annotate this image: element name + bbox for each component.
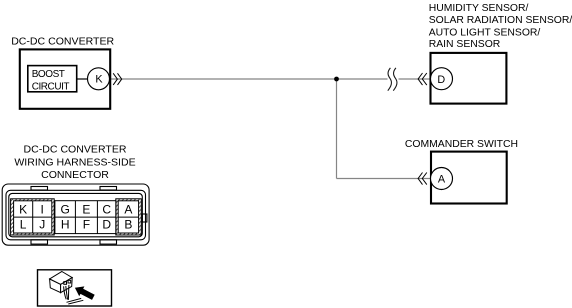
- svg-text:I: I: [41, 203, 44, 217]
- svg-text:COMMANDER SWITCH: COMMANDER SWITCH: [405, 139, 518, 150]
- svg-text:H: H: [61, 218, 70, 232]
- svg-text:WIRING HARNESS-SIDE: WIRING HARNESS-SIDE: [14, 156, 135, 168]
- svg-text:D: D: [437, 74, 445, 86]
- svg-text:J: J: [39, 218, 45, 232]
- svg-text:AUTO LIGHT SENSOR/: AUTO LIGHT SENSOR/: [429, 28, 541, 39]
- svg-text:G: G: [61, 203, 70, 217]
- svg-text:K: K: [19, 203, 27, 217]
- svg-text:CONNECTOR: CONNECTOR: [41, 169, 109, 181]
- svg-text:DC-DC CONVERTER: DC-DC CONVERTER: [24, 144, 127, 156]
- svg-text:DC-DC CONVERTER: DC-DC CONVERTER: [11, 36, 114, 48]
- svg-text:C: C: [102, 203, 111, 217]
- svg-text:BOOST: BOOST: [32, 69, 65, 80]
- svg-text:CIRCUIT: CIRCUIT: [32, 82, 70, 93]
- svg-text:L: L: [20, 218, 27, 232]
- svg-text:HUMIDITY SENSOR/: HUMIDITY SENSOR/: [429, 3, 529, 14]
- svg-text:SOLAR RADIATION SENSOR/: SOLAR RADIATION SENSOR/: [429, 15, 572, 26]
- svg-text:RAIN SENSOR: RAIN SENSOR: [429, 39, 501, 50]
- svg-text:K: K: [95, 73, 103, 85]
- svg-text:A: A: [124, 203, 132, 217]
- svg-text:D: D: [102, 218, 111, 232]
- svg-text:E: E: [82, 203, 90, 217]
- svg-text:F: F: [83, 218, 90, 232]
- svg-text:A: A: [438, 173, 446, 185]
- svg-text:B: B: [124, 218, 132, 232]
